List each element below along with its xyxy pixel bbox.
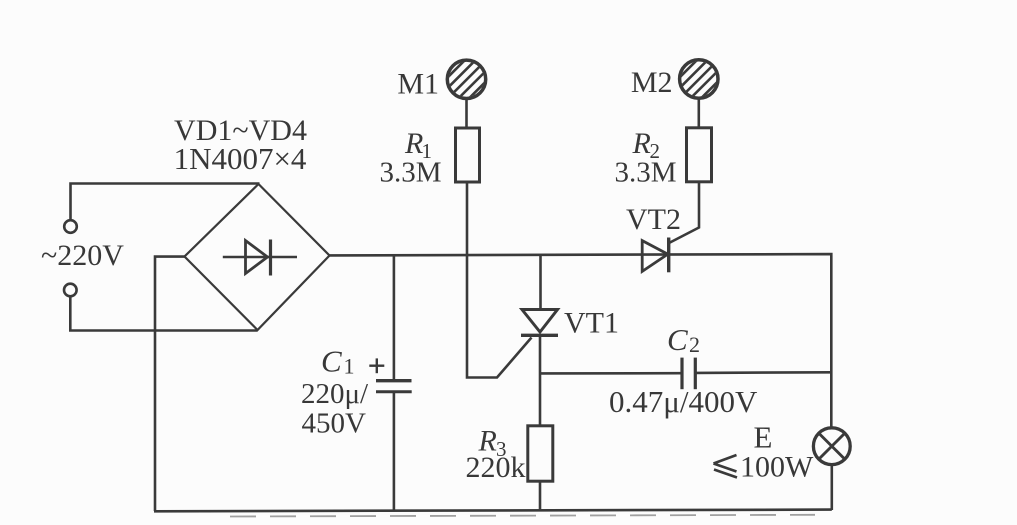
label 3.3M (R1) xyxy=(379,156,441,188)
svg-text:M1: M1 xyxy=(397,68,439,101)
wire: VT1 node to C2 left plate xyxy=(541,372,683,375)
label E xyxy=(754,420,773,455)
resistor R2 xyxy=(687,128,712,182)
label 220μ/ xyxy=(301,378,369,410)
label ≤100W (slanted less-equal drawn with strokes) xyxy=(714,450,815,483)
bottom rail xyxy=(154,510,832,512)
svg-text:3.3M: 3.3M xyxy=(614,157,676,189)
label VD1~VD4 xyxy=(174,114,307,147)
svg-text:1N4007×4: 1N4007×4 xyxy=(174,141,307,176)
wire: R1 to VT1 gate xyxy=(467,182,532,378)
thyristor VT1 xyxy=(521,310,558,336)
terminal T2 (AC input lower) xyxy=(64,284,77,297)
wire: R3 to bottom rail xyxy=(539,481,542,511)
wire: terminal T1 to bridge AC top vertex xyxy=(71,184,260,221)
label 1N4007×4 xyxy=(174,141,307,176)
wire: bus to C1 top plate xyxy=(393,255,396,379)
svg-text:R: R xyxy=(632,127,651,160)
polarity + for C1 xyxy=(369,358,384,373)
svg-text:M2: M2 xyxy=(631,66,673,99)
svg-text:C: C xyxy=(321,344,342,379)
svg-text:1: 1 xyxy=(344,354,355,379)
svg-text:E: E xyxy=(754,420,773,455)
wire: M1 to R1 xyxy=(465,99,468,128)
svg-text:VT1: VT1 xyxy=(564,307,619,340)
svg-text:0.47μ/400V: 0.47μ/400V xyxy=(609,384,758,419)
label 220k xyxy=(466,451,526,484)
svg-text:C: C xyxy=(667,322,688,357)
bridge rectifier VD1~VD4 diamond xyxy=(185,184,330,330)
wire: M2 to R2 xyxy=(697,99,700,128)
capacitor C2 xyxy=(682,358,695,390)
svg-text:3.3M: 3.3M xyxy=(379,156,441,188)
label R2 xyxy=(632,127,661,163)
wire: DC+ bus from bridge right vertex to top-right corner, down right side xyxy=(330,254,832,428)
resistor R1 xyxy=(456,128,480,182)
svg-text:100W: 100W xyxy=(740,450,814,483)
label VT1 xyxy=(564,307,619,340)
resistor R3 xyxy=(528,426,553,481)
svg-text:VT2: VT2 xyxy=(626,203,681,236)
touch electrode M2 xyxy=(667,47,731,111)
wire: terminal T2 to bridge AC bottom vertex xyxy=(70,296,257,331)
label R3 xyxy=(478,425,507,462)
label M1 xyxy=(397,68,439,101)
label C2 xyxy=(667,322,700,357)
wire: bus to VT1 anode xyxy=(539,255,542,309)
svg-text:450V: 450V xyxy=(302,408,367,440)
wire: VT1 cathode to R3 xyxy=(539,335,542,426)
svg-text:220k: 220k xyxy=(466,451,526,484)
label R1 xyxy=(404,127,432,163)
capacitor C1 (polarized) xyxy=(376,381,412,392)
label VT2 xyxy=(626,203,681,236)
label C1 xyxy=(321,344,355,379)
thyristor VT2 xyxy=(642,238,669,273)
touch electrode M1 xyxy=(435,47,499,111)
wire: R2 to VT2 gate xyxy=(669,182,699,243)
label ~220V xyxy=(41,239,124,272)
scan ghost line under bottom rail xyxy=(230,515,815,517)
terminal T1 (AC input upper) xyxy=(64,220,77,233)
svg-text:2: 2 xyxy=(689,332,700,357)
wire: C1 bottom plate to bottom rail xyxy=(393,392,396,511)
lamp E xyxy=(813,428,850,465)
bridge internal diode symbol xyxy=(223,240,297,276)
label 0.47μ/400V xyxy=(609,384,758,419)
label 3.3M (R2) xyxy=(614,157,676,189)
wire: lamp to bottom rail xyxy=(830,465,833,510)
wire: C2 right plate to right rail xyxy=(695,371,831,374)
label M2 xyxy=(631,66,673,99)
wire: bridge DC- (left vertex) to bottom rail xyxy=(155,257,185,511)
svg-text:R: R xyxy=(404,127,423,160)
svg-text:~220V: ~220V xyxy=(41,239,124,272)
label 450V xyxy=(302,408,367,440)
svg-text:220μ/: 220μ/ xyxy=(301,378,369,410)
